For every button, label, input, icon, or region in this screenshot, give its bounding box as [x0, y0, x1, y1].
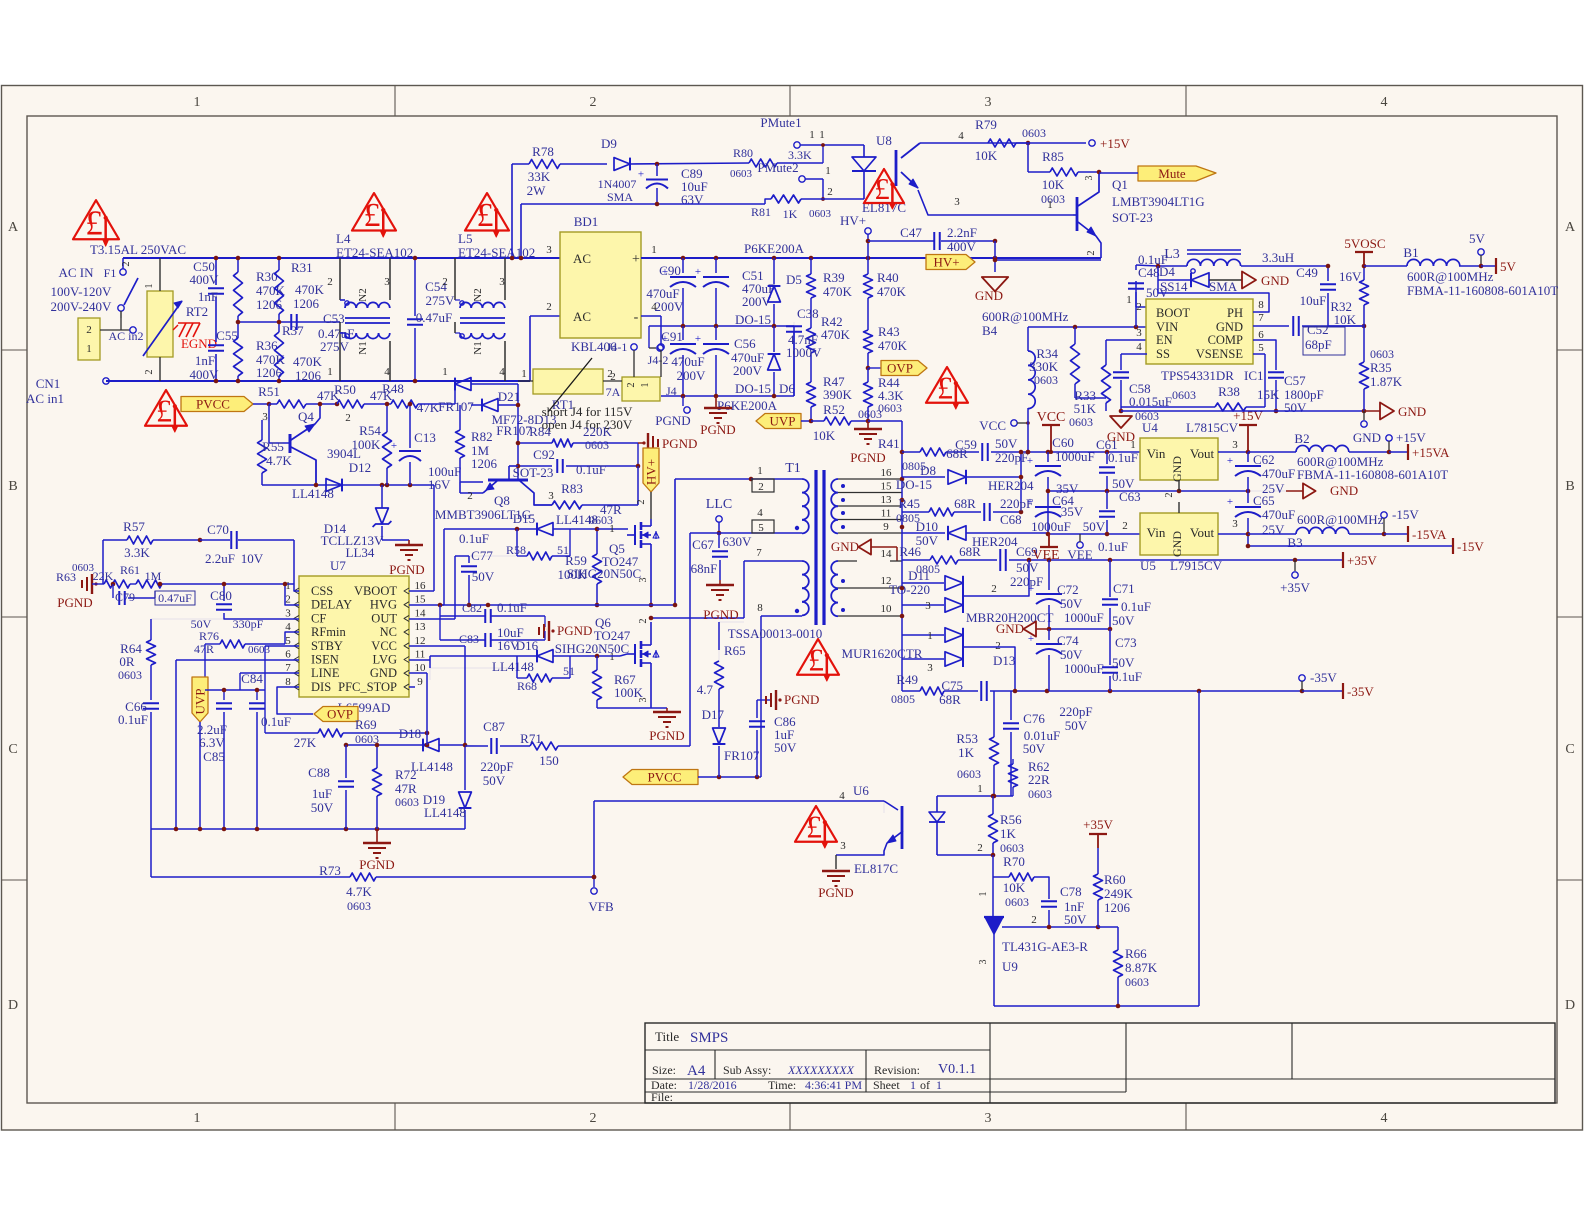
svg-text:50V: 50V [1083, 519, 1106, 534]
svg-text:LL4148: LL4148 [492, 659, 534, 674]
svg-text:1: 1 [609, 523, 615, 535]
svg-text:1.87K: 1.87K [1370, 374, 1403, 389]
resistor R35 [1360, 326, 1403, 411]
net flag OVP hv [866, 361, 927, 376]
IC U4 L7815CV [1130, 420, 1238, 498]
svg-text:1uF: 1uF [312, 786, 332, 801]
capacitor C92 [516, 443, 641, 477]
svg-text:VCC: VCC [1037, 410, 1066, 425]
svg-text:LL4148: LL4148 [292, 486, 334, 501]
capacitor C66 [118, 699, 159, 829]
svg-text:T1: T1 [785, 461, 801, 476]
svg-text:50V: 50V [1060, 596, 1083, 611]
resistor R78 [527, 144, 607, 198]
svg-text:220pF: 220pF [480, 759, 513, 774]
svg-text:+: + [695, 266, 701, 278]
resistor R54 [352, 402, 392, 485]
svg-text:1N4007: 1N4007 [598, 177, 637, 191]
svg-text:C72: C72 [1057, 582, 1079, 597]
svg-text:R51: R51 [258, 384, 280, 399]
svg-text:0805: 0805 [891, 692, 915, 706]
svg-text:R70: R70 [1003, 854, 1025, 869]
diode D21 [455, 389, 532, 438]
svg-text:0603: 0603 [1041, 192, 1065, 206]
diode D10 [902, 519, 1048, 549]
resistor R61 [111, 563, 299, 605]
svg-text:68R: 68R [959, 544, 981, 559]
wire vcc row [1026, 450, 1110, 455]
resistor R85 [1028, 143, 1101, 206]
svg-text:GND: GND [996, 621, 1024, 636]
svg-text:BD1: BD1 [574, 214, 599, 229]
svg-text:ISEN: ISEN [311, 653, 339, 667]
svg-text:4: 4 [1136, 341, 1142, 353]
svg-text:FBMA-11-160808-601A10T: FBMA-11-160808-601A10T [1297, 467, 1448, 482]
svg-text:50V: 50V [1060, 647, 1083, 662]
svg-text:470uF: 470uF [1262, 466, 1295, 481]
svg-text:MUR1620CTR: MUR1620CTR [842, 646, 923, 661]
svg-text:B: B [8, 479, 17, 494]
capacitor C57 [1268, 372, 1324, 415]
wire vboot loop [409, 485, 434, 591]
svg-text:U7: U7 [330, 558, 346, 573]
svg-text:3.3uH: 3.3uH [1262, 250, 1294, 265]
net pin -15V [1381, 507, 1420, 536]
svg-text:-: - [634, 310, 639, 325]
svg-text:of: of [920, 1078, 930, 1092]
svg-text:R38: R38 [1218, 384, 1240, 399]
svg-text:4: 4 [1381, 95, 1388, 110]
capacitor C74 [1028, 629, 1104, 691]
svg-text:5: 5 [285, 635, 291, 647]
note J4 [542, 404, 633, 432]
svg-text:C74: C74 [1057, 633, 1079, 648]
svg-text:470uF: 470uF [1262, 507, 1295, 522]
svg-text:2: 2 [144, 370, 155, 375]
resistor R59 [558, 527, 602, 608]
resistor R37 [275, 322, 323, 383]
wire HV bus [641, 256, 1101, 261]
wire -15V rail [1246, 538, 1485, 554]
svg-text:3: 3 [548, 490, 554, 502]
capacitor C68 [984, 496, 1033, 527]
capacitor C90 [646, 258, 696, 326]
svg-text:11: 11 [881, 508, 892, 520]
svg-text:C85: C85 [203, 749, 225, 764]
svg-text:10V: 10V [241, 551, 264, 566]
svg-text:1nF: 1nF [195, 353, 215, 368]
diode D8 [896, 450, 1034, 512]
svg-text:+: + [1028, 583, 1034, 595]
svg-text:R79: R79 [975, 117, 997, 132]
resistor R32 [1330, 280, 1368, 327]
capacitor C59 [955, 436, 1140, 465]
svg-text:51: 51 [563, 664, 575, 678]
svg-text:Vin: Vin [1147, 446, 1166, 461]
choke L5 [442, 231, 535, 381]
resistor R64 [118, 619, 224, 700]
capacitor C38 [786, 306, 822, 396]
svg-text:4:36:41 PM: 4:36:41 PM [805, 1078, 862, 1092]
ground GND t1 pin14 [831, 539, 902, 561]
svg-text:£: £ [874, 171, 890, 206]
svg-text:U6: U6 [853, 783, 869, 798]
power ground PGND q6 [649, 708, 684, 743]
capacitor C13 [391, 402, 461, 492]
svg-text:4.7K: 4.7K [346, 884, 372, 899]
IC1 TPS54331DR box [1136, 299, 1264, 383]
svg-text:3: 3 [1136, 327, 1142, 339]
wire -35V rail [1197, 683, 1375, 699]
svg-text:249K: 249K [1104, 886, 1134, 901]
wire bottom pgnd bus [151, 827, 465, 832]
svg-text:LLC: LLC [706, 497, 732, 512]
svg-text:+35V: +35V [1347, 553, 1377, 568]
resistor R66 [1114, 927, 1158, 1006]
svg-text:3: 3 [546, 244, 552, 256]
svg-text:275V: 275V [426, 293, 456, 308]
resistor R44 [864, 368, 905, 421]
svg-text:SS14: SS14 [1160, 279, 1188, 294]
power -15VA [1384, 526, 1447, 542]
svg-text:1M: 1M [145, 569, 162, 583]
capacitor C89 [638, 164, 708, 207]
svg-text:PGND: PGND [655, 413, 690, 428]
svg-text:4: 4 [384, 366, 390, 378]
resistor R49 [891, 672, 978, 707]
capacitor C52 [1293, 316, 1366, 355]
dual diode D11 [889, 560, 1053, 625]
svg-text:0603: 0603 [118, 668, 142, 682]
svg-text:C57: C57 [1284, 373, 1306, 388]
svg-text:10K: 10K [1042, 177, 1065, 192]
svg-text:16V: 16V [1339, 269, 1362, 284]
capacitor C70 [200, 522, 299, 591]
svg-text:15K: 15K [1257, 387, 1280, 402]
wire vfb row [592, 801, 884, 879]
capacitor C77 [459, 531, 495, 605]
svg-text:C71: C71 [1113, 581, 1135, 596]
svg-text:AC IN: AC IN [58, 265, 94, 280]
wire u4 vin [901, 451, 903, 453]
resistor R50 [334, 382, 393, 408]
svg-text:VBOOT: VBOOT [354, 584, 397, 598]
svg-text:50V: 50V [1065, 718, 1088, 733]
svg-text:PGND: PGND [703, 607, 738, 622]
resistor R47 [807, 353, 853, 421]
svg-text:D12: D12 [349, 460, 371, 475]
svg-text:+: + [1027, 455, 1033, 467]
power +15VA [1389, 444, 1450, 460]
svg-text:PGND: PGND [389, 562, 424, 577]
svg-text:C80: C80 [210, 588, 232, 603]
capacitor C65 [1227, 491, 1295, 546]
svg-text:5VOSC: 5VOSC [1344, 236, 1385, 251]
svg-text:GND: GND [831, 539, 859, 554]
svg-text:220K: 220K [583, 424, 613, 439]
ground GND hv [975, 277, 1008, 303]
svg-text:2: 2 [590, 95, 597, 110]
thermistor RT1 [491, 358, 622, 427]
optocoupler U8 [852, 130, 1073, 215]
svg-text:2: 2 [1086, 251, 1097, 256]
svg-text:GND: GND [1170, 456, 1184, 482]
svg-text:3: 3 [1232, 439, 1238, 451]
svg-text:R81: R81 [751, 205, 771, 219]
svg-text:B: B [1565, 479, 1574, 494]
svg-text:DO-15: DO-15 [735, 381, 771, 396]
svg-text:PGND: PGND [784, 692, 819, 707]
svg-text:470K: 470K [295, 282, 325, 297]
svg-text:1K: 1K [958, 745, 975, 760]
wire pfc_stop [409, 686, 415, 688]
svg-text:3: 3 [925, 600, 931, 612]
resistor R53 [956, 691, 998, 796]
resistor R30 [234, 258, 286, 322]
svg-text:C70: C70 [207, 522, 229, 537]
svg-text:C60: C60 [1052, 435, 1074, 450]
resistor R67 [593, 656, 652, 708]
svg-text:C62: C62 [1253, 452, 1275, 467]
svg-text:0603: 0603 [1370, 347, 1394, 361]
svg-text:470K: 470K [877, 284, 907, 299]
svg-text:2: 2 [1136, 301, 1142, 313]
wire u5 vout [1218, 532, 1250, 537]
ground GND ic1 [1107, 416, 1135, 444]
capacitor C84 [240, 671, 291, 829]
svg-text:1: 1 [86, 343, 92, 355]
svg-text:2: 2 [626, 383, 637, 388]
svg-text:2.2nF: 2.2nF [947, 225, 977, 240]
net pin VFB [588, 875, 614, 914]
svg-text:SMA: SMA [1209, 279, 1238, 294]
svg-text:U8: U8 [876, 133, 892, 148]
svg-text:2: 2 [607, 368, 613, 380]
svg-text:C: C [1565, 742, 1574, 757]
svg-text:47R: 47R [395, 781, 417, 796]
transistor Q8 [435, 465, 554, 522]
wire pin8 dis [277, 687, 313, 714]
resistor R55 [258, 420, 293, 485]
svg-text:50V: 50V [1064, 912, 1087, 927]
svg-text:16: 16 [881, 467, 893, 479]
svg-text:3: 3 [985, 95, 992, 110]
svg-text:UVP: UVP [769, 414, 795, 429]
net pin PMute2 [757, 160, 830, 201]
svg-text:400V: 400V [190, 272, 220, 287]
svg-text:-15V: -15V [1392, 507, 1419, 522]
svg-text:1206: 1206 [1104, 900, 1131, 915]
svg-text:+: + [1027, 496, 1033, 508]
capacitor C48 [1126, 252, 1169, 327]
svg-text:3: 3 [1084, 176, 1095, 181]
svg-text:C38: C38 [797, 306, 819, 321]
resistor R68 [517, 654, 599, 693]
svg-text:C13: C13 [414, 430, 436, 445]
resistor R73 [151, 829, 594, 913]
svg-text:5: 5 [758, 522, 764, 534]
svg-text:OVP: OVP [887, 361, 913, 376]
svg-text:0603: 0603 [1069, 415, 1093, 429]
svg-text:10K: 10K [975, 148, 998, 163]
svg-text:0603: 0603 [957, 767, 981, 781]
optocoupler U6 [836, 783, 993, 876]
svg-text:C68: C68 [1000, 512, 1022, 527]
capacitor C73 [1102, 629, 1142, 691]
svg-text:8.87K: 8.87K [1125, 960, 1158, 975]
svg-text:D11: D11 [908, 568, 930, 583]
resistor R83 [552, 466, 638, 527]
svg-text:0.1uF: 0.1uF [576, 462, 606, 477]
diode D5 transil [735, 258, 802, 327]
svg-text:2: 2 [991, 583, 997, 595]
svg-text:15: 15 [415, 594, 427, 606]
capacitor C80 [191, 582, 299, 631]
svg-text:R41: R41 [878, 436, 900, 451]
svg-text:Q1: Q1 [1112, 177, 1128, 192]
svg-text:200V: 200V [733, 363, 763, 378]
svg-text:16V: 16V [428, 477, 451, 492]
svg-text:1206: 1206 [295, 368, 322, 383]
svg-text:L7815CV: L7815CV [1186, 420, 1239, 435]
wire ph pin [1158, 280, 1269, 312]
net flag HV+ vertical [636, 448, 659, 519]
svg-text:A: A [1565, 220, 1576, 235]
wire out [409, 556, 469, 619]
capacitor C61 [1096, 437, 1138, 491]
svg-text:1: 1 [936, 1078, 942, 1092]
net pin LLC [690, 497, 751, 535]
svg-text:0603: 0603 [809, 208, 832, 220]
svg-text:CN1: CN1 [36, 376, 61, 391]
wire fb bottom [994, 1004, 1199, 1009]
svg-text:GND: GND [1330, 483, 1358, 498]
warning triangle W6 [797, 639, 839, 681]
svg-text:600R@100MHz: 600R@100MHz [1297, 512, 1384, 527]
capacitor C55 [190, 328, 238, 382]
svg-text:C84: C84 [241, 671, 263, 686]
svg-text:R30: R30 [256, 269, 278, 284]
svg-text:Q4: Q4 [298, 409, 314, 424]
svg-text:N2: N2 [472, 288, 484, 301]
svg-text:C67: C67 [692, 537, 714, 552]
ground GND r35 [1361, 403, 1426, 428]
wire lvg [409, 655, 517, 680]
svg-text:2: 2 [327, 276, 333, 288]
transistor Q4 [262, 402, 361, 485]
svg-text:470K: 470K [293, 354, 323, 369]
wire comp pin [1253, 340, 1276, 370]
svg-text:22K: 22K [93, 569, 114, 583]
resistor R82 [456, 405, 498, 482]
svg-text:Q8: Q8 [494, 493, 510, 508]
svg-text:£: £ [937, 370, 953, 406]
capacitor C69 [1000, 544, 1139, 589]
svg-text:3.3K: 3.3K [124, 545, 150, 560]
svg-text:D17: D17 [702, 707, 725, 722]
svg-text:R71: R71 [520, 731, 542, 746]
svg-text:10uF: 10uF [1300, 293, 1327, 308]
net pin VCC blue [979, 418, 1030, 433]
ferrite bead B1 [1364, 245, 1558, 298]
svg-text:5V: 5V [1469, 231, 1486, 246]
svg-text:1: 1 [144, 284, 155, 289]
svg-text:0.47uF: 0.47uF [416, 310, 452, 325]
svg-text:D4: D4 [1159, 264, 1175, 279]
svg-text:27K: 27K [294, 735, 317, 750]
svg-text:PGND: PGND [700, 422, 735, 437]
svg-text:R65: R65 [724, 643, 746, 658]
power ground PGND u6 [818, 871, 853, 900]
svg-text:0.1uF: 0.1uF [261, 714, 291, 729]
svg-text:PGND: PGND [818, 885, 853, 900]
svg-text:100V-120V: 100V-120V [51, 284, 113, 299]
resistor R51 [258, 384, 340, 408]
resistor R81 [751, 186, 864, 221]
resistor R36 [234, 322, 286, 381]
svg-text:B4: B4 [982, 323, 998, 338]
wire pin7 line [240, 673, 299, 690]
svg-text:33K: 33K [528, 169, 551, 184]
svg-text:C73: C73 [1115, 635, 1137, 650]
svg-text:+15VA: +15VA [1412, 445, 1450, 460]
svg-text:L3: L3 [1164, 247, 1180, 262]
svg-text:VCC: VCC [979, 418, 1006, 433]
svg-text:VCC: VCC [371, 639, 397, 653]
svg-text:FBMA-11-160808-601A10T: FBMA-11-160808-601A10T [1407, 283, 1558, 298]
net flag OVP u7 [314, 707, 358, 722]
svg-text:C53: C53 [323, 311, 345, 326]
transformer T1 [728, 461, 902, 641]
net flag UVP vertical [192, 677, 208, 829]
svg-text:Time:: Time: [768, 1078, 796, 1092]
svg-text:4: 4 [757, 507, 763, 519]
svg-text:ET24-SEA102: ET24-SEA102 [458, 245, 535, 260]
svg-text:2W: 2W [527, 183, 547, 198]
capacitor C79 [113, 584, 195, 605]
svg-text:GND: GND [1170, 531, 1184, 557]
svg-text:-35V: -35V [1310, 670, 1337, 685]
svg-text:R49: R49 [896, 672, 918, 687]
wire fb top [992, 690, 994, 692]
dual diode D13 MUR1620CTR [842, 628, 1016, 691]
svg-text:1000uF: 1000uF [1064, 610, 1104, 625]
resistor R38 [1253, 354, 1265, 407]
inner border [27, 116, 1557, 1103]
svg-text:3: 3 [1232, 518, 1238, 530]
svg-text:1: 1 [194, 95, 201, 110]
capacitor C88 [308, 745, 354, 829]
svg-text:Sub Assy:: Sub Assy: [723, 1063, 771, 1077]
svg-text:330pF: 330pF [233, 617, 264, 631]
wire T1 pin8 col [760, 616, 762, 777]
svg-text:0603: 0603 [72, 562, 95, 574]
zone column ticks [395, 86, 1186, 1131]
svg-text:2: 2 [977, 842, 983, 854]
capacitor C72 [1028, 560, 1104, 629]
zone row ticks [2, 350, 1583, 880]
svg-text:F1: F1 [104, 266, 117, 280]
capacitor C76 [1003, 691, 1060, 796]
svg-text:FR107: FR107 [438, 399, 474, 414]
svg-text:VSENSE: VSENSE [1196, 347, 1244, 361]
svg-text:1: 1 [640, 383, 651, 388]
svg-text:R45: R45 [898, 496, 920, 511]
svg-text:GND: GND [975, 288, 1003, 303]
svg-text:C77: C77 [471, 548, 493, 563]
svg-text:R57: R57 [123, 519, 145, 534]
wire lvg row2 [429, 656, 431, 660]
